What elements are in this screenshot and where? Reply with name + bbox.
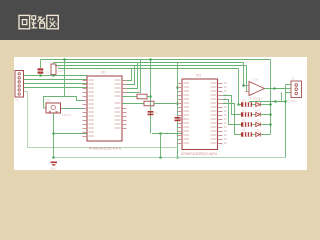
svg-text:C1: C1 [155,111,159,115]
svg-text:16MHz: 16MHz [62,113,72,117]
svg-text:LED: LED [255,108,260,112]
svg-text:ATMEGA328P(32-A)PU: ATMEGA328P(32-A)PU [181,152,218,156]
svg-text:ATMEGA32(32-D)PU: ATMEGA32(32-D)PU [89,147,122,151]
svg-text:C3: C3 [45,71,49,75]
svg-text:X2: X2 [291,77,295,81]
svg-text:IC3A: IC3A [252,78,259,82]
svg-text:X1: X1 [15,98,19,102]
svg-text:IC1: IC1 [101,71,106,75]
svg-text:GND: GND [50,167,56,171]
svg-text:Q1: Q1 [46,99,50,103]
svg-text:NJM4580: NJM4580 [250,96,263,100]
svg-text:IC2: IC2 [196,74,201,78]
svg-text:LED: LED [255,118,260,122]
svg-text:R5: R5 [242,118,246,122]
svg-text:SJ-3524: SJ-3524 [287,99,297,103]
svg-text:R4: R4 [242,108,246,112]
svg-text:R6: R6 [242,128,246,132]
svg-text:R2: R2 [137,90,141,94]
svg-text:LED: LED [255,128,260,132]
svg-text:R3: R3 [242,98,246,102]
svg-text:10k: 10k [58,69,63,73]
